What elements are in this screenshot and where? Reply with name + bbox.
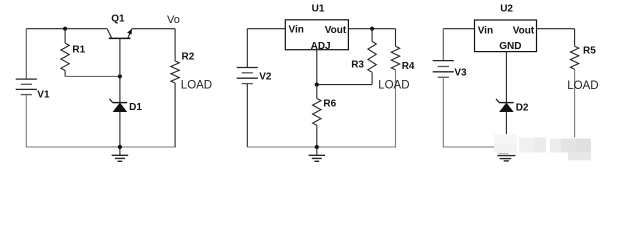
ground xyxy=(497,154,515,161)
wire xyxy=(246,84,248,147)
svg-text:Vout: Vout xyxy=(325,25,347,36)
node ADJ xyxy=(315,83,319,87)
label U1 xyxy=(312,4,325,15)
svg-text:V3: V3 xyxy=(454,68,467,79)
wire xyxy=(65,75,120,77)
node gnd1 xyxy=(118,145,122,149)
svg-text:V2: V2 xyxy=(259,72,272,83)
wire xyxy=(443,28,474,30)
wire xyxy=(247,28,285,30)
svg-text:R2: R2 xyxy=(182,52,195,63)
transistor Q1 xyxy=(107,29,132,77)
pin Vout U2 xyxy=(513,25,535,36)
label V1 xyxy=(37,89,50,100)
svg-text:LOAD: LOAD xyxy=(567,80,598,92)
svg-text:V1: V1 xyxy=(37,89,50,100)
svg-text:Vout: Vout xyxy=(513,25,535,36)
pin Vin U1 xyxy=(289,25,304,36)
wire xyxy=(442,29,444,61)
wire xyxy=(119,112,121,147)
battery V2 xyxy=(237,68,258,84)
resistor R6 xyxy=(313,85,321,147)
label R2 xyxy=(182,52,195,63)
svg-text:R3: R3 xyxy=(351,59,364,70)
label D2 xyxy=(516,103,529,114)
wire xyxy=(348,28,395,30)
zener D2 xyxy=(496,99,514,112)
wire xyxy=(505,52,507,103)
svg-text:R6: R6 xyxy=(323,99,336,110)
pin Vout U1 xyxy=(325,25,347,36)
wire xyxy=(26,28,107,30)
svg-text:U1: U1 xyxy=(312,4,325,15)
label Q1 xyxy=(111,13,125,24)
label LOAD xyxy=(378,80,409,92)
wire xyxy=(316,50,318,85)
node gnd2 xyxy=(315,145,319,149)
svg-text:R4: R4 xyxy=(402,61,415,72)
wire xyxy=(25,95,27,147)
battery V1 xyxy=(16,79,37,95)
label R4 xyxy=(402,61,415,72)
resistor R2 xyxy=(171,29,179,147)
label V3 xyxy=(454,68,467,79)
label R3 xyxy=(351,59,364,70)
regulator U2 xyxy=(475,20,537,52)
wire xyxy=(443,146,495,148)
label LOAD xyxy=(567,80,598,92)
svg-text:D1: D1 xyxy=(129,102,142,113)
node R3-top xyxy=(370,27,374,31)
battery V3 xyxy=(433,61,454,78)
label D1 xyxy=(129,102,142,113)
resistor R3 xyxy=(368,29,376,85)
wire xyxy=(317,84,372,86)
svg-text:R5: R5 xyxy=(583,46,596,57)
svg-text:Q1: Q1 xyxy=(111,13,125,24)
resistor R4 xyxy=(391,29,399,147)
wire xyxy=(119,76,121,102)
svg-text:ADJ: ADJ xyxy=(311,41,331,52)
svg-text:LOAD: LOAD xyxy=(378,80,409,92)
wire xyxy=(26,146,176,148)
wire xyxy=(25,29,27,79)
node base xyxy=(118,74,122,78)
pin GND U2 xyxy=(499,41,521,52)
regulator U1 xyxy=(285,20,348,50)
pin ADJ U1 xyxy=(311,41,331,52)
resistor R5 xyxy=(570,29,578,138)
wire xyxy=(246,29,248,68)
wire xyxy=(537,28,575,30)
svg-text:Vin: Vin xyxy=(289,25,304,36)
label R5 xyxy=(583,46,596,57)
svg-text:U2: U2 xyxy=(500,4,513,15)
ground xyxy=(112,147,129,161)
label Vo xyxy=(167,14,180,26)
pin Vin U2 xyxy=(478,26,493,37)
wire xyxy=(442,77,444,147)
svg-text:LOAD: LOAD xyxy=(181,79,212,91)
label R1 xyxy=(72,44,85,55)
wire xyxy=(132,28,175,30)
svg-text:Vin: Vin xyxy=(478,26,493,37)
svg-text:Vo: Vo xyxy=(167,14,180,26)
resistor R1 xyxy=(61,29,69,77)
svg-text:R1: R1 xyxy=(72,44,85,55)
wire xyxy=(247,146,396,148)
wire xyxy=(505,112,507,137)
watermark xyxy=(494,134,591,160)
svg-text:GND: GND xyxy=(499,41,521,52)
zener D1 xyxy=(110,99,128,112)
label R6 xyxy=(323,99,336,110)
label LOAD xyxy=(181,79,212,91)
ground xyxy=(309,147,326,161)
svg-text:D2: D2 xyxy=(516,103,529,114)
node R1-top xyxy=(63,27,67,31)
label V2 xyxy=(259,72,272,83)
label U2 xyxy=(500,4,513,15)
